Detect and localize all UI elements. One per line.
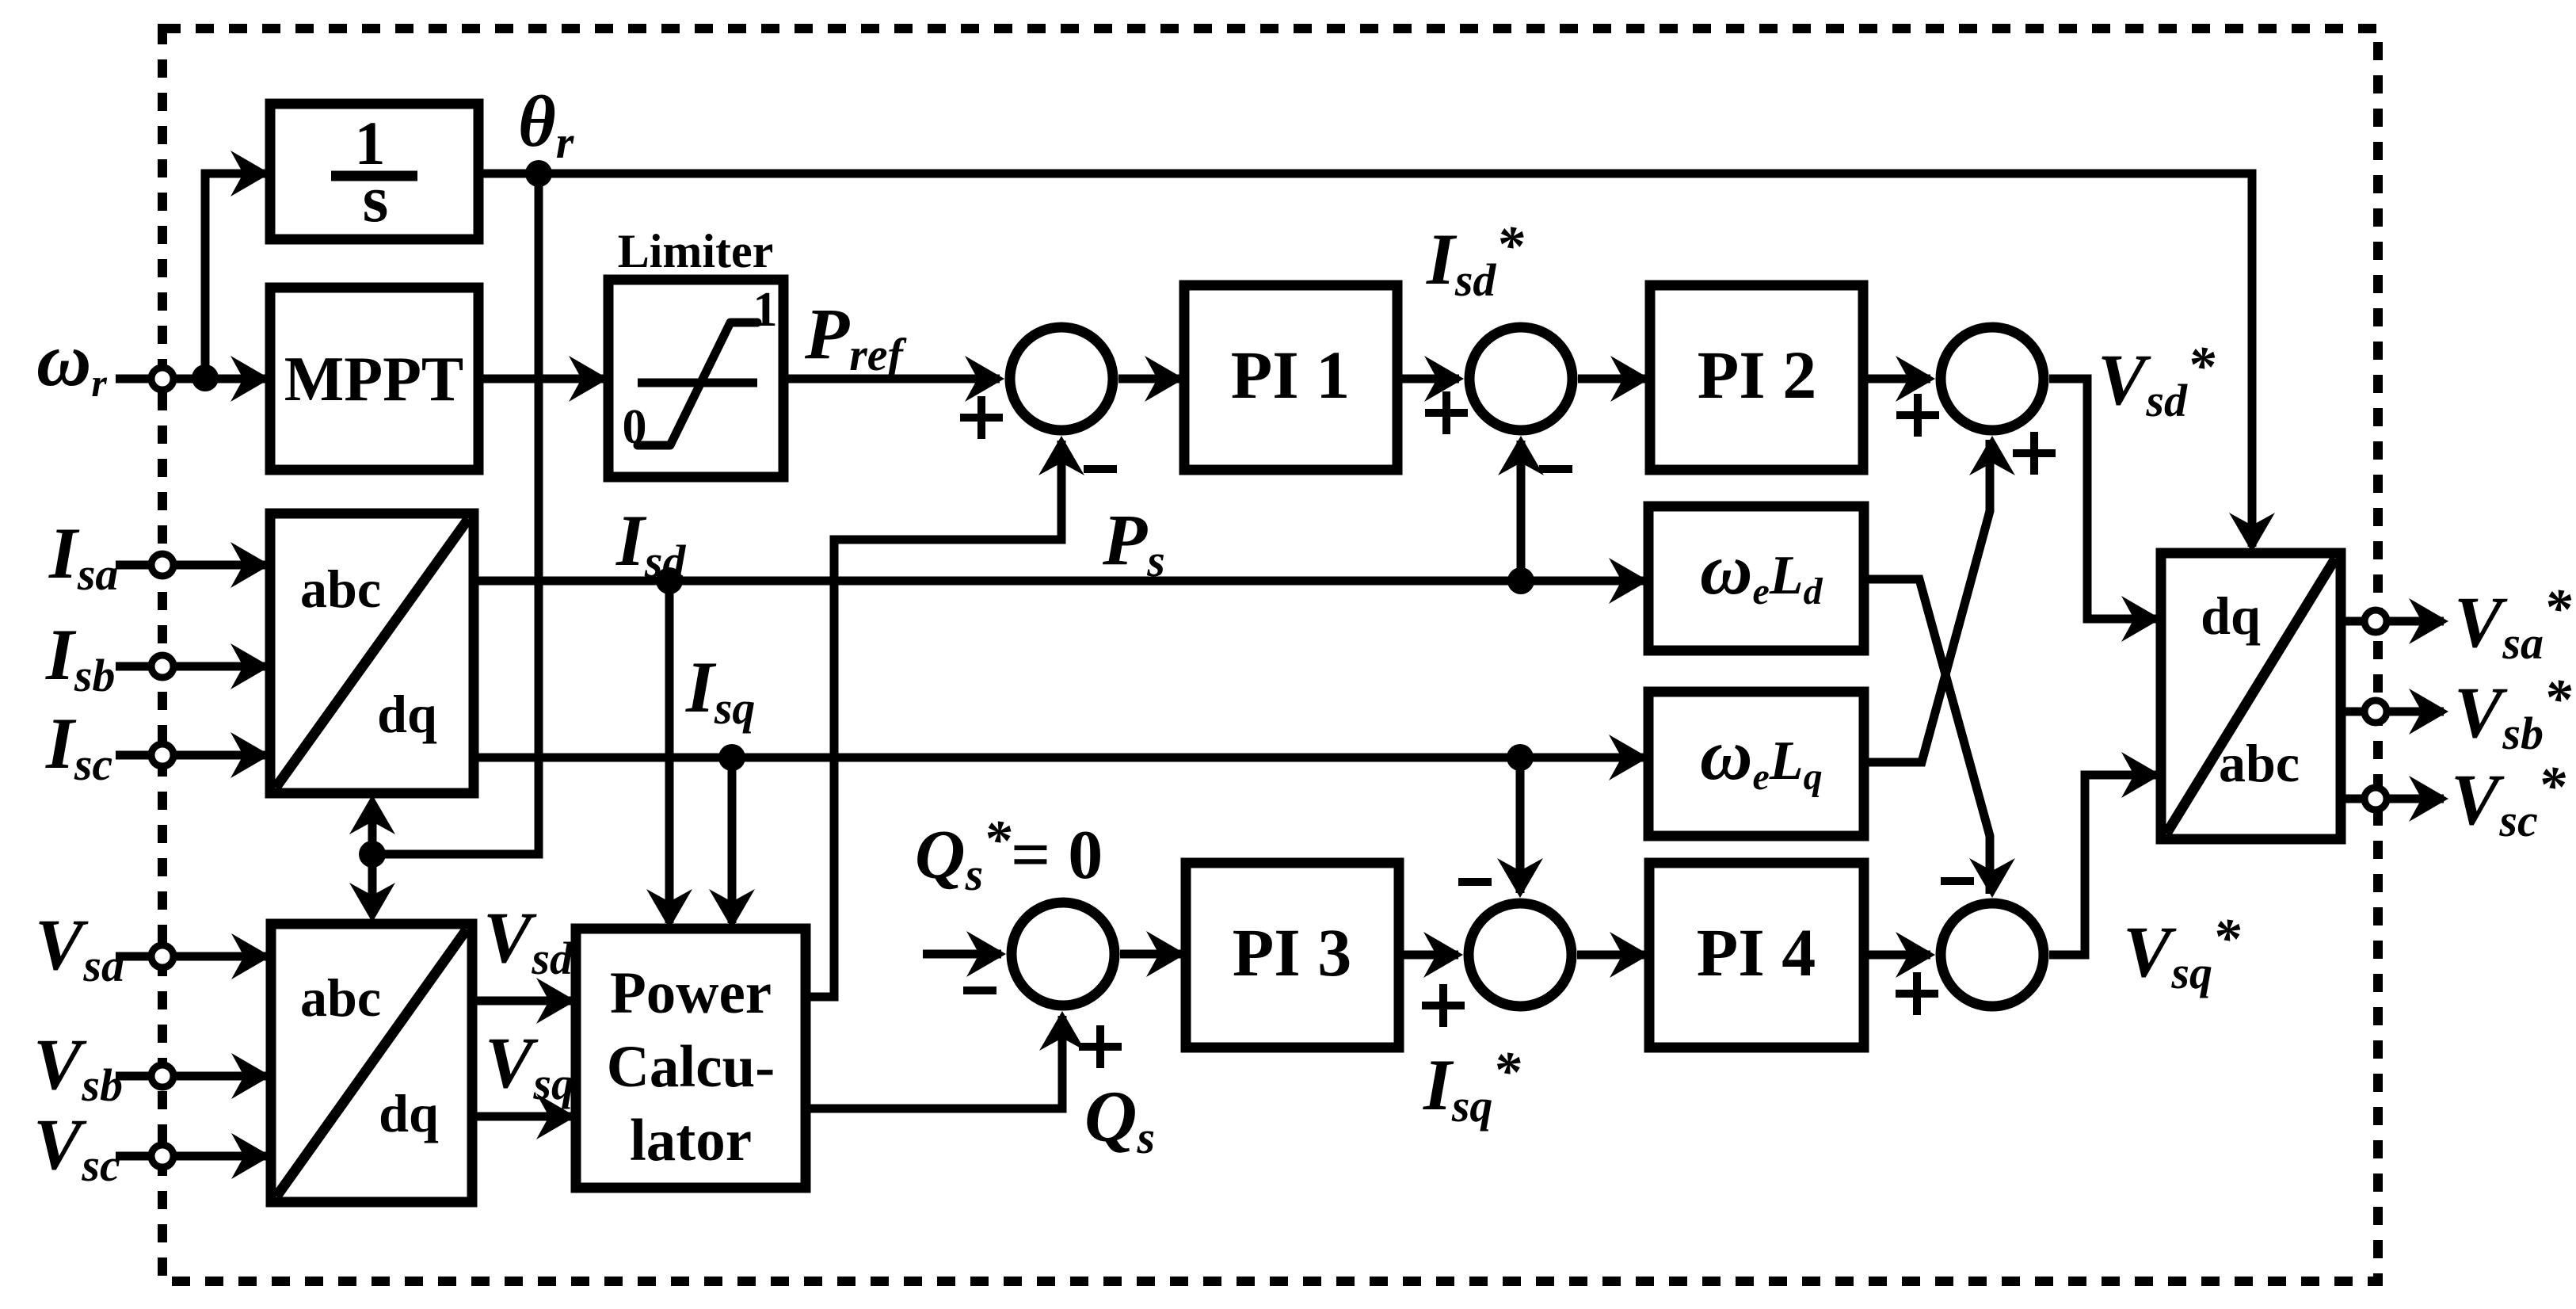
block Limiter (608, 225, 783, 477)
wire V_sb input lead (116, 1053, 271, 1099)
wire P_s power calculator to sum1 (806, 436, 1084, 997)
wire V_sq abc/dq to power calculator (472, 1093, 576, 1139)
block PI 2 (1650, 285, 1863, 470)
summing junction sum4 Q_s (1012, 903, 1115, 1006)
wire theta_r double arrow into abc/dq blocks (349, 795, 395, 922)
wire I_sd from abc/dq to omega_e_L_d (474, 558, 1648, 604)
wire sum1 to PI 1 (1118, 356, 1184, 402)
svg-text:PI 3: PI 3 (1233, 914, 1352, 990)
terminal omega_r (151, 368, 173, 390)
wire I_sq down into sum5 (1497, 758, 1543, 898)
terminal V_sa* (2365, 610, 2387, 632)
svg-text:PI 4: PI 4 (1697, 914, 1816, 990)
summing junction sum6 V_sq* (1941, 903, 2044, 1006)
wire PI 4 to sum6 (1864, 932, 1935, 978)
svg-text:abc: abc (300, 559, 381, 619)
sign minus sum5 (1458, 878, 1492, 886)
wire I_sd down into power calculator (646, 581, 692, 929)
summing junction sum2 I_sd (1469, 327, 1572, 430)
svg-text:dq: dq (2201, 586, 2261, 646)
wire I_sb input lead (116, 643, 270, 689)
wire V_sd* sum3 to dq/abc (2049, 379, 2161, 642)
block omega_e L_d gain (1648, 506, 1864, 651)
wire I_sd* PI 1 to sum2 (1397, 356, 1464, 402)
svg-text:lator: lator (630, 1108, 752, 1174)
wire V_sb* output (2341, 689, 2448, 735)
sign plus sum4 (1079, 1025, 1122, 1068)
node I_sd to power calculator (656, 567, 683, 594)
sign minus sum6 (1941, 877, 1974, 885)
svg-text:abc: abc (2219, 733, 2300, 793)
svg-text:dq: dq (377, 684, 437, 744)
block abc/dq voltage transform (271, 924, 472, 1202)
wire theta_r down to transform blocks (372, 174, 539, 854)
sign minus sum1 (1084, 465, 1117, 473)
terminal V_sb* (2365, 700, 2387, 723)
node omega_r branch (192, 364, 219, 391)
sign minus sum4 (963, 987, 996, 994)
svg-text:abc: abc (300, 967, 381, 1028)
svg-text:0: 0 (623, 400, 647, 454)
node theta_r at transforms (359, 841, 386, 868)
wire MPPT to Limiter (478, 356, 608, 402)
sign plus sum3 bottom (2013, 432, 2056, 475)
wire I_sa input lead (116, 542, 270, 588)
terminal V_sc* (2365, 788, 2387, 810)
block PI 1 (1184, 285, 1397, 470)
block abc/dq current transform (270, 513, 474, 793)
wire V_sa* output (2341, 598, 2448, 644)
wire I_sc input lead (116, 732, 270, 778)
wire omega_r to integrator 1/s (205, 151, 270, 379)
node I_sq to power calculator (718, 744, 745, 771)
sign plus sum1 (960, 396, 1003, 439)
node I_sq to sum5 (1507, 744, 1534, 771)
svg-text:PI 2: PI 2 (1698, 337, 1817, 413)
wire theta_r from 1/s to dq/abc (top rail) (478, 174, 2275, 552)
wire sum2 to PI 2 (1578, 356, 1650, 402)
terminal V_sc (151, 1145, 173, 1167)
terminal I_sb (151, 655, 173, 677)
wire V_sc input lead (116, 1133, 271, 1179)
svg-text:dq: dq (379, 1083, 439, 1143)
svg-text:Limiter: Limiter (618, 225, 774, 277)
block MPPT (270, 288, 478, 470)
svg-text:MPPT: MPPT (284, 345, 464, 414)
wire V_sa input lead (116, 933, 271, 979)
wire Q_s power calculator to sum4 (806, 1011, 1085, 1109)
wire P_ref Limiter to sum1 (783, 356, 1004, 402)
block dq/abc output transform (2161, 553, 2341, 839)
sign plus sum2 (1425, 391, 1468, 434)
terminal I_sa (151, 554, 173, 576)
wire I_sq down into power calculator (709, 758, 755, 929)
wire I_sd up into sum2 (1498, 436, 1544, 581)
block power calculator (576, 929, 806, 1188)
svg-text:s: s (363, 162, 389, 236)
wire sum4 to PI 3 (1120, 931, 1186, 977)
wire I_sq from abc/dq to omega_e_L_q (474, 735, 1648, 780)
block PI 4 (1649, 863, 1864, 1048)
summing junction sum5 I_sq (1469, 903, 1572, 1006)
block PI 3 (1186, 863, 1399, 1048)
wire PI 2 to sum3 (1863, 356, 1935, 402)
wire V_sd abc/dq to power calculator (472, 978, 576, 1024)
sign plus sum5 (1422, 984, 1465, 1027)
summing junction sum1 P_ref/P_s (1010, 327, 1113, 430)
svg-text:Power: Power (610, 960, 772, 1026)
terminal V_sa (151, 945, 173, 967)
wire omega_e_L_q cross to sum3 (1862, 436, 2015, 762)
svg-text:1: 1 (753, 283, 778, 337)
wire V_sc* output (2341, 776, 2448, 822)
wire PI 3 to sum5 (1399, 932, 1463, 978)
wire Q_s*=0 input into sum4 (923, 931, 1006, 977)
sign minus sum2 (1539, 465, 1572, 473)
sign plus sum3 left (1896, 394, 1939, 437)
block omega_e L_q gain (1648, 692, 1864, 836)
wire sum5 to PI 4 (1577, 932, 1649, 978)
wire V_sq* sum6 to dq/abc (2049, 752, 2161, 955)
node I_sd to sum2 (1507, 567, 1534, 594)
svg-text:Calcu-: Calcu- (607, 1034, 775, 1100)
terminal I_sc (151, 744, 173, 766)
sign plus sum6 (1896, 972, 1938, 1015)
node theta_r (525, 160, 552, 187)
block integrator 1/s (270, 104, 478, 239)
terminal V_sb (151, 1065, 173, 1087)
svg-text:PI 1: PI 1 (1231, 337, 1351, 413)
summing junction sum3 V_sd* (1941, 327, 2044, 430)
wire omega_r input lead (116, 356, 270, 402)
wire omega_e_L_d cross to sum6 (1864, 579, 2015, 898)
